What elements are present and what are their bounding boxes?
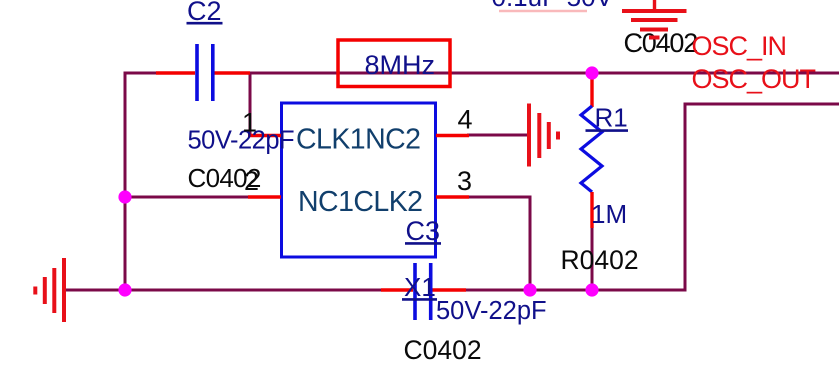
svg-text:X1: X1 [404, 272, 436, 302]
wire pin3 horizontal [467, 196, 532, 199]
ground symbol at pin 4 [529, 104, 558, 167]
junction dot bottom left [118, 283, 131, 296]
resistor R1 designator underline [586, 129, 629, 132]
wire OSC_OUT horizontal [684, 103, 839, 106]
resistor R1 bottom pin stub [590, 192, 593, 228]
capacitor C2 plates [197, 44, 213, 101]
ground symbol top (C1) bars [622, 11, 687, 38]
capacitor C3 pin stub left [381, 288, 413, 291]
pin 3 stub [436, 195, 469, 198]
pin 4 stub [436, 134, 469, 137]
capacitor C3 plates [415, 263, 431, 320]
wire pin3 vertical drop [529, 196, 532, 291]
capacitor C1 faint red pin remnants top [499, 10, 587, 13]
svg-text:C3: C3 [406, 216, 441, 246]
svg-text:50V-22pF: 50V-22pF [188, 127, 295, 155]
junction dot left pin2 branch [118, 190, 131, 203]
wire top horizontal left segment [124, 72, 161, 75]
capacitor C2 pin stub right [215, 71, 251, 74]
crystal designator underline [402, 298, 437, 301]
crystal frequency box 8MHz [338, 40, 450, 87]
svg-text:C0402: C0402 [624, 28, 698, 58]
junction dot bottom pin3 [523, 283, 536, 296]
wire pin4 to ground [467, 134, 529, 137]
wire bottom horizontal [64, 289, 383, 292]
svg-text:2: 2 [244, 166, 259, 196]
svg-text:3: 3 [457, 166, 472, 196]
ground symbol top (C1) stub [653, 0, 656, 10]
svg-text:4: 4 [457, 105, 472, 135]
resistor R1 top pin stub [590, 72, 593, 107]
wire top horizontal right segment [248, 72, 839, 75]
svg-text:NC1CLK2: NC1CLK2 [298, 186, 422, 218]
wire pin1 vertical drop [249, 73, 252, 135]
ground symbol bottom left [35, 258, 64, 322]
svg-text:CLK1NC2: CLK1NC2 [296, 124, 420, 156]
svg-text:OSC_OUT: OSC_OUT [692, 64, 816, 94]
pin 1 stub [248, 134, 281, 137]
svg-text:1M: 1M [591, 199, 627, 229]
svg-text:8MHz: 8MHz [365, 50, 436, 80]
svg-text:R0402: R0402 [561, 245, 639, 275]
pin 2 stub [248, 195, 281, 198]
svg-text:50V-22pF: 50V-22pF [436, 297, 547, 325]
wire right vertical [684, 103, 687, 292]
capacitor C3 designator underline [405, 242, 441, 245]
svg-text:OSC_IN: OSC_IN [692, 31, 787, 61]
crystal resonator box X1 [282, 103, 436, 257]
wire pin2 branch [125, 196, 250, 199]
junction dot top R1 [585, 66, 598, 79]
wire left vertical [124, 72, 127, 291]
svg-text:0.1uF-50V: 0.1uF-50V [492, 0, 614, 12]
svg-text:1: 1 [242, 108, 257, 138]
wire R1 bottom vertical [591, 226, 594, 290]
capacitor C2 pin stub left [156, 71, 195, 74]
resistor R1 zigzag body [581, 106, 602, 192]
svg-text:C0402: C0402 [404, 335, 482, 365]
wire bottom horizontal right of C3 [463, 289, 687, 292]
capacitor C3 pin stub right [433, 288, 467, 291]
svg-text:R1: R1 [595, 103, 628, 133]
capacitor C2 designator underline [187, 22, 223, 25]
junction dot bottom R1 [585, 283, 598, 296]
